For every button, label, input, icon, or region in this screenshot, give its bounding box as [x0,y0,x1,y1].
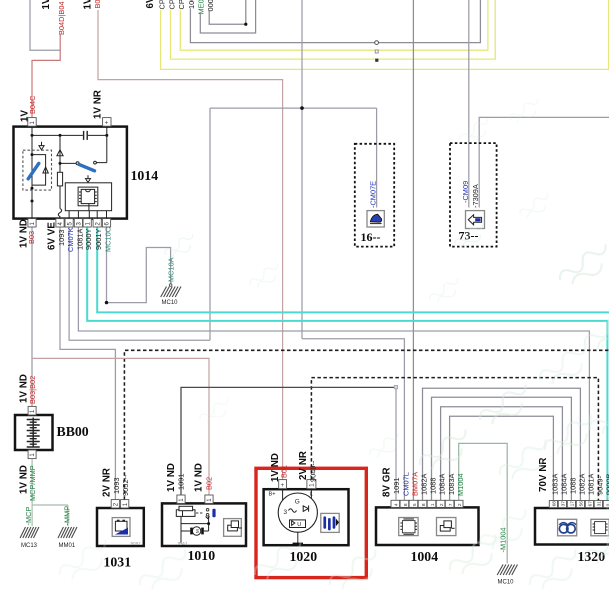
svg-text:1084A: 1084A [560,474,569,495]
ground hatch MC10 [161,287,181,298]
wire 1000 grey elbow across top [190,0,480,43]
wire B02 branch from B03 to 1010 [32,358,209,495]
corner square 1091 [394,385,397,388]
wire 9052 dashed from 1031 pin 1 to right edge [124,350,609,499]
wire 1083A from 1004 to 1320 [450,416,554,500]
wire ME05 elbow [200,0,255,33]
chip icon 1004 [399,518,418,536]
svg-text:1091: 1091 [392,478,401,494]
svg-text:1010: 1010 [188,548,216,563]
splice ring on wire 1000 [375,41,379,45]
pin 5 of 1004 at x413.4 [409,500,418,507]
component 1014 box [14,127,127,219]
pin 7 of 1004 at x449.6 [445,500,454,507]
wire 9000Y cyan from 1014 pin 1 to 1320 9000B [87,227,607,501]
ground stub circle MC10A [169,284,172,287]
svg-text:MCP/MMP: MCP/MMP [28,465,37,501]
ground hatch MC10 (right) [497,565,517,576]
motor M circle [192,527,200,535]
svg-text:9000Y: 9000Y [84,229,93,250]
svg-text:6V VE: 6V VE [47,222,58,250]
svg-text:2: 2 [457,503,463,506]
splice mark on yellow CPA4 [375,50,378,53]
decor [57,96,609,599]
pin 1 top of 1014 [28,118,36,127]
svg-text:16--: 16-- [361,230,381,244]
svg-text:5: 5 [412,503,418,506]
relay blue arm [28,163,39,178]
svg-text:B01: B01 [280,465,289,478]
1014 internal: top rail right part [88,134,107,136]
svg-text:B02: B02 [205,477,214,490]
pin 4 bottom of 1014 at x60 [56,219,64,227]
1014 internal stubs to bottom pins [69,211,106,219]
switch blue arm [79,164,95,170]
svg-text:B04C: B04C [28,95,37,114]
car icon 73-- [466,211,485,229]
wire CPA4 yellow inner [180,0,488,50]
pin 5 bottom of 1014 at x69.1 [65,219,73,227]
svg-text:CM07L: CM07L [401,472,410,496]
blue bar contact [212,509,215,517]
svg-text:1V: 1V [41,0,52,10]
1014 internal module sub-box [65,183,111,211]
svg-text:2: 2 [439,503,445,506]
wire 9049 dashed from 1020 pin 1 to 1320 [311,378,598,501]
pin 1 of 1004 at x431.5 [427,500,436,507]
svg-text:CM07K: CM07K [66,227,75,252]
connector box 73-- dashed [450,143,497,247]
switch arm feed [60,162,76,164]
svg-text:BM07A: BM07A [410,472,419,496]
junction dot CM07 node [300,106,304,110]
battery-charge icon 1031 [112,518,130,537]
svg-text:CPA3: CPA3 [167,0,176,10]
svg-text:-MC10A: -MC10A [167,257,176,284]
ground hatch MM01 [58,527,77,538]
pin 1 bottom of BB00 [28,450,36,459]
starter icon glyph [228,525,238,531]
pin 4 of 1004 at x395.3 [391,500,400,507]
wire CM09 from top edge into connector box 73-- [468,0,470,208]
regulator icon box [321,513,339,532]
1014 internal: top rail left part [32,134,83,136]
svg-text:1082A: 1082A [578,474,587,495]
wire CM07K from 1014 pin 5 [69,227,210,340]
pin 1 top of BB00 [28,406,36,415]
pin 67 of 1320 at x589.4 [585,501,593,508]
pin 1 bottom of 1014 at x32 [28,219,36,227]
svg-text:1084A: 1084A [438,474,447,495]
svg-text:B04D|B04: B04D|B04 [57,1,66,35]
svg-text:+: + [281,483,285,489]
junction dot switch takeoff [59,162,62,165]
svg-text:CPA5: CPA5 [158,0,167,10]
svg-text:-CM07E: -CM07E [368,181,377,208]
wire M1004 green from 1004 to ground [459,443,508,563]
regulator U box [290,520,306,528]
svg-text:1014: 1014 [131,168,159,183]
wire 7309A from right edge into connector box 73-- [479,117,609,207]
svg-text:ME05: ME05 [197,0,206,15]
svg-text:37: 37 [561,501,567,507]
svg-text:8: 8 [421,503,427,506]
svg-text:B03: B03 [27,231,36,244]
pin 1 of 1031 [121,500,129,508]
svg-text:CPA4: CPA4 [177,0,186,10]
battery cell symbol [27,418,40,448]
svg-text:9000B: 9000B [605,474,609,495]
svg-text:0003: 0003 [206,0,215,12]
motor lead right [204,530,209,532]
alternator circle [278,493,317,532]
component 1320 box [535,508,609,545]
pin + of 1020 [279,480,287,489]
diode glyph in alternator [303,505,308,511]
pin 2 bottom of 1014 at x97.2 [93,219,101,227]
pin 37 of 1320 at x562.4 [558,501,566,508]
svg-text:8V GR: 8V GR [382,467,393,497]
svg-text:68: 68 [552,501,558,507]
resistor R [57,172,62,186]
component BB00 battery box [15,415,53,450]
wire B03 from 1014 pin 1 to battery BB00 [31,227,33,406]
pin 1 bottom of 1014 at x87.2 [83,219,91,227]
svg-text:1082A: 1082A [420,474,429,495]
component 1010 box [162,503,246,546]
wire 0003 elbow [209,0,246,24]
pin 1 of 1010 (1091) [177,495,185,503]
coil icon 1320 [558,519,577,536]
pin of 1010 (B02) [205,495,213,503]
diode D on middle branch [57,150,63,156]
svg-text:1081A: 1081A [587,474,596,495]
svg-text:56: 56 [579,501,585,507]
pin 3 bottom of 1014 at x78.4 [74,219,82,227]
svg-text:1083A: 1083A [551,474,560,495]
ground hatch MC13 [20,527,39,538]
module icon 1320 [591,519,609,536]
svg-text:1088: 1088 [429,478,438,494]
svg-text:B01: B01 [93,0,102,9]
alternator ground tab [293,543,303,546]
svg-text:MM01: MM01 [59,543,76,549]
svg-text:MC13: MC13 [21,543,38,549]
svg-text:1031: 1031 [104,555,132,570]
starter internal wiring [181,516,209,543]
svg-text:1V: 1V [83,0,94,10]
alternator pin stubs [283,489,312,501]
capacitor C plates [84,131,88,140]
wire 1091 net from 1010 to 1004 [181,387,395,495]
junction dots on top rail [31,134,34,137]
1014 internal: middle vertical to pin 4 [59,135,61,172]
svg-text:G: G [295,499,300,506]
junction dot MC10O corner [105,301,108,304]
wire 9001Y cyan from 1014 pin 2 [97,227,609,312]
component 1020 box [264,489,349,545]
alternator ground lead [297,532,299,543]
wire CM07 horizontal y108 [210,107,377,109]
svg-text:1081A: 1081A [75,229,84,250]
svg-text:-CM09: -CM09 [461,181,470,203]
svg-text:7: 7 [448,503,454,506]
splice mark on yellow CPA3 [375,59,378,62]
svg-text:67: 67 [588,501,594,507]
pin 8 of 1004 at x422.5 [418,500,427,507]
dashed link to solenoid switch [196,512,204,514]
wire CPA3 yellow middle [171,0,496,59]
svg-text:+: + [105,120,109,126]
component 1031 box [97,508,144,546]
svg-text:1000: 1000 [187,0,196,9]
switch left contact [76,162,79,165]
junction dot 0003 corner [244,23,247,26]
svg-text:9001Y: 9001Y [94,229,103,250]
actuation arrow above relay [39,142,44,150]
starter relay boxes [176,510,182,517]
wire MC10O from 1014 pin 6 to ground MC10 [107,227,171,303]
svg-text:1093: 1093 [112,478,121,494]
svg-text:31: 31 [597,501,603,507]
svg-text:M: M [195,529,201,533]
wire CPA5 yellow outer [161,0,609,69]
regulator icon blue bars [323,516,326,528]
svg-text:70V NR: 70V NR [538,457,549,492]
svg-text:M1004: M1004 [456,473,465,496]
svg-text:MC10: MC10 [498,580,515,586]
svg-text:-MMP: -MMP [62,506,71,526]
pin 17 of 1320 at x571.4 [567,501,575,508]
svg-text:BB00: BB00 [57,424,89,439]
svg-text:6V: 6V [145,0,156,9]
1014 internal: plus pin stub [106,127,108,136]
component 1004 box [376,507,479,545]
wire 1088 from 1004 to 1320 [432,397,572,500]
pin 31 of 1320 at x598.4 [594,501,602,508]
wire B04D/B04C red segment [32,35,60,118]
wire BM07A from top edge down to 1004 [412,0,414,500]
svg-text:B+: B+ [269,492,276,498]
pin 2 of 1031 [111,500,119,508]
svg-text:3: 3 [284,509,288,516]
svg-text:9049-: 9049- [596,476,605,495]
connector box 16-- dashed [355,144,394,247]
svg-text:-7309A: -7309A [471,184,480,208]
wire CM07L branch to 1004 [302,339,404,501]
svg-text:1083A: 1083A [447,474,456,495]
svg-text:9092: 9092 [131,541,142,546]
wire 1082A from 1004 to 1320 [423,388,581,500]
relay K dashed enclosure [23,150,52,190]
pin 2 of 1004 at x440.6 [436,500,445,507]
relay coil loop [32,155,46,186]
wire CM07E drop into connector box 16-- [376,108,378,207]
svg-text:1: 1 [430,503,436,506]
connector icon 1004 [437,518,456,536]
wire 1081A from 1014 pin 3 to 1320 [78,227,589,501]
svg-text:U: U [297,522,301,528]
pin + top of 1014 [103,118,111,127]
1014 internal: pin1 stub [31,127,33,136]
starter icon box [224,519,242,537]
pin 0 of 1320 at x607.4 [603,501,609,508]
motor brushes [190,528,193,535]
regulator icon arrow [336,518,339,526]
diode in relay loop [43,167,48,173]
svg-text:1020: 1020 [290,549,318,564]
svg-text:1093: 1093 [57,230,66,246]
wire 1091 drop to 1004 [395,389,397,501]
pin 1 of 1020 [307,480,316,489]
horn icon 16-- [367,211,384,227]
switch right contact lead [96,135,106,162]
svg-text:B03|B02: B03|B02 [28,376,37,404]
wire CM07 riser x210 [209,108,211,340]
switch actuation arrow [86,175,91,182]
svg-text:1004: 1004 [411,549,439,564]
wire 1084A from 1004 to 1320 [441,407,563,501]
wire B04D (grey feed from top) [30,0,60,50]
highlight red box around 1020 [256,468,366,577]
svg-text:MC10O: MC10O [104,226,113,252]
svg-text:17: 17 [570,501,576,507]
solenoid contacts [206,509,209,512]
svg-text:9052--: 9052-- [121,474,130,496]
svg-text:JB4d: JB4d [177,541,188,546]
svg-text:1088: 1088 [569,478,578,494]
svg-text:1091: 1091 [177,474,186,490]
1014 internal: resistor to pin 4 with fuse curl [58,186,61,219]
wire B01 vertical from top, right at y80, down to 1020 B+ [98,10,283,480]
pin 56 of 1320 at x580.4 [576,501,584,508]
svg-text:8: 8 [403,503,409,506]
pin 2 of 1004 at x458.7 [454,500,463,507]
module chip lead down [88,204,90,211]
module chip inner with pins [81,189,94,203]
1014 internal: left vertical to bottom pin 1 [31,135,33,218]
svg-text:9049--: 9049-- [309,460,318,482]
wire 1093 from 1014 pin 4 to 1031 pin 2 [60,227,115,500]
module chip outer [78,187,98,206]
svg-text:-MCP: -MCP [24,507,33,526]
wire MCP/MMP below BB00 [32,459,68,526]
wire CM07 riser x302 to top edge [301,0,303,339]
pin 68 of 1320 at x553.4 [549,501,557,508]
svg-text:1V NR: 1V NR [93,90,104,119]
pin 8 of 1004 at x404.4 [400,500,409,507]
svg-text:1V ND: 1V ND [194,463,205,492]
svg-text:1V ND: 1V ND [166,463,177,492]
pin 6 bottom of 1014 at x106.5 [102,219,110,227]
svg-text:4: 4 [394,503,400,506]
svg-text:2V NR: 2V NR [298,451,309,480]
svg-text:MC10: MC10 [162,300,179,306]
